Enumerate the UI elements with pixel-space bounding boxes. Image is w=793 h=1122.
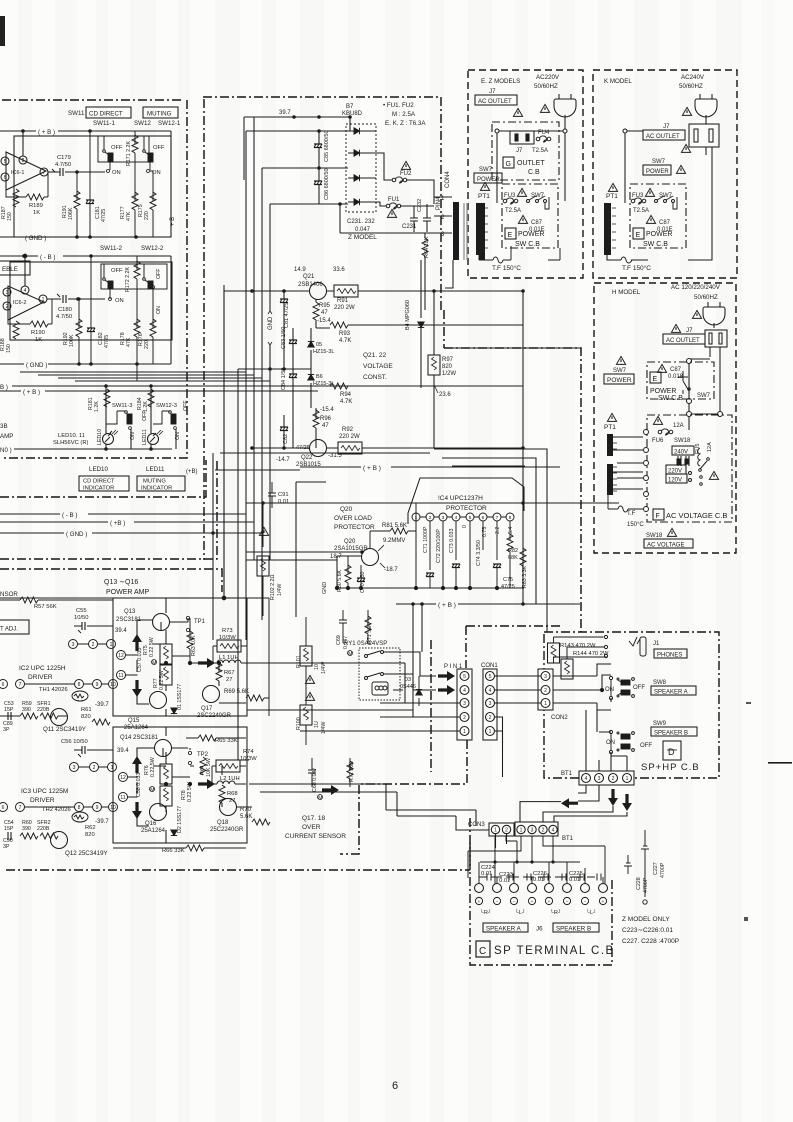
svg-text:25A1264: 25A1264: [124, 725, 149, 731]
Q12: [51, 832, 68, 849]
svg-text:R64 10K: R64 10K: [424, 236, 430, 258]
svg-text:3: 3: [463, 701, 466, 707]
B4 MPG060 diode: [405, 260, 424, 388]
zener B6 HZ15-3L: [308, 372, 335, 408]
svg-text:SW C.B: SW C.B: [658, 395, 683, 402]
C84 1/50: [281, 368, 297, 448]
R66 33K: [186, 845, 204, 851]
R176 220: [138, 287, 156, 364]
svg-text:R94: R94: [340, 392, 352, 398]
PT1 transformer EZ: [476, 203, 488, 255]
svg-text:1: 1: [626, 776, 629, 782]
CON4 transformer black bars: [453, 202, 459, 260]
svg-text:SW12: SW12: [134, 120, 151, 127]
svg-text:M: M: [152, 661, 156, 667]
svg-text:C87: C87: [670, 367, 682, 373]
R187 150: [1, 189, 19, 221]
Q17: [203, 686, 220, 703]
fuse FU4 EZ: [532, 130, 551, 154]
PT1 warn K: [608, 183, 617, 191]
svg-text:POWER: POWER: [646, 231, 672, 238]
svg-text:M : 2.5A: M : 2.5A: [392, 111, 416, 118]
svg-text:2: 2: [542, 828, 545, 834]
C53 R59 SFR1 row: [4, 701, 51, 713]
C54 R60 SFR2: [4, 820, 51, 832]
bridge rectifier B7 KBU8D: [342, 104, 376, 212]
svg-text:-18.7: -18.7: [384, 567, 398, 573]
svg-text:3P: 3P: [3, 844, 10, 850]
svg-text:OFF: OFF: [183, 400, 189, 411]
svg-text:• FU1. FU2: • FU1. FU2: [383, 102, 414, 109]
svg-text:E: E: [653, 376, 658, 383]
svg-text:TP1: TP1: [194, 619, 206, 625]
R192 100K column: [63, 297, 82, 364]
svg-text:D: D: [668, 747, 675, 757]
svg-text:GND: GND: [322, 582, 328, 594]
PT1 connection circles H: [608, 430, 649, 513]
svg-text:0.01: 0.01: [533, 877, 544, 883]
lower +B wire: [396, 602, 580, 609]
svg-text:68K: 68K: [508, 555, 518, 561]
svg-text:1: 1: [494, 828, 497, 834]
svg-text:47: 47: [321, 310, 328, 316]
svg-text:0.047: 0.047: [355, 227, 371, 233]
R94 4.7K: [311, 383, 523, 405]
LED wires: [106, 386, 176, 449]
Q16: [150, 804, 167, 821]
C68 0.047: [308, 758, 323, 802]
C83 1/50: [281, 327, 297, 369]
svg-text:SW11-3: SW11-3: [112, 403, 133, 409]
SPEAKER A / B boxes: [483, 923, 599, 933]
PT1 warn EZ: [480, 182, 489, 190]
C91 0.01: [268, 482, 289, 508]
svg-text:C55: C55: [76, 608, 87, 614]
svg-text:4: 4: [489, 688, 492, 694]
svg-text:2: 2: [489, 715, 492, 721]
svg-text:( GND ): ( GND ): [25, 235, 46, 242]
fat arrows IC2: [132, 634, 142, 651]
FU1 fuse: [376, 197, 434, 217]
svg-text:SW7: SW7: [697, 393, 711, 399]
svg-text:2: 2: [612, 776, 615, 782]
svg-text:C: C: [479, 946, 486, 957]
svg-text:2: 2: [429, 515, 432, 521]
svg-text:7: 7: [496, 515, 499, 521]
CON2: [538, 669, 553, 710]
svg-text:PT1: PT1: [478, 193, 490, 200]
svg-text:( + B ): ( + B ): [38, 129, 55, 136]
svg-text:AC220V: AC220V: [536, 74, 560, 81]
svg-text:SW11-1: SW11-1: [93, 120, 115, 127]
SP TERMINAL block border: [470, 843, 612, 965]
svg-text:GND: GND: [268, 316, 274, 330]
C70 1/50: [357, 565, 366, 593]
svg-text:820: 820: [442, 364, 453, 370]
svg-text:C223∼C226:0.01: C223∼C226:0.01: [622, 927, 673, 934]
svg-text:C84 1/50: C84 1/50: [281, 368, 287, 390]
LED11: [142, 427, 181, 445]
svg-text:Q14 2SC3181: Q14 2SC3181: [120, 735, 159, 741]
svg-text:-15.4: -15.4: [317, 318, 331, 324]
zener B5 HZ15-3L: [308, 328, 335, 372]
svg-text:F: F: [656, 513, 660, 520]
R172 2.2K: [125, 256, 140, 327]
svg-text:-31.5: -31.5: [328, 453, 342, 459]
R191 106K column: [62, 172, 80, 237]
svg-text:Q15: Q15: [128, 718, 140, 724]
svg-text:1: 1: [544, 701, 547, 707]
svg-text:+: +: [548, 899, 551, 904]
svg-text:B7: B7: [346, 104, 354, 110]
svg-text:SW12-2: SW12-2: [141, 245, 164, 252]
C181 47/25: [86, 131, 107, 237]
svg-text:(+B): (+B): [186, 469, 198, 475]
svg-text:FU1: FU1: [388, 197, 400, 203]
svg-text:150: 150: [7, 212, 13, 221]
svg-text:C231: C231: [402, 224, 417, 230]
svg-text:47/25: 47/25: [101, 209, 107, 222]
svg-text:Q12 25C3419Y: Q12 25C3419Y: [65, 850, 108, 857]
svg-text:C227. C228 :4700P: C227. C228 :4700P: [622, 938, 679, 945]
svg-text:CON4: CON4: [445, 171, 451, 188]
svg-text:R97: R97: [442, 357, 454, 363]
svg-text:11: 11: [120, 795, 125, 801]
svg-text:E: E: [636, 232, 641, 239]
op-amp IC6-2: [3, 254, 55, 320]
svg-text:C87: C87: [531, 220, 543, 226]
svg-text:2: 2: [505, 828, 508, 834]
svg-text:R143 470 2W: R143 470 2W: [560, 643, 596, 649]
junction dots top: [292, 115, 352, 206]
svg-text:NSOR: NSOR: [0, 591, 18, 598]
svg-text:C231. 232: C231. 232: [347, 219, 375, 225]
CD DIRECT box: [86, 107, 131, 118]
fat arrows IC3: [132, 756, 142, 773]
svg-text:KBU8D: KBU8D: [342, 111, 363, 117]
svg-text:C81 47/25: C81 47/25: [284, 303, 290, 328]
E POWER SW C.B label EZ: [505, 228, 544, 248]
R64 10K: [422, 233, 430, 310]
svg-text:1/4W: 1/4W: [321, 722, 327, 734]
svg-text:M: M: [348, 652, 352, 658]
svg-text:( - B ): ( - B ): [40, 254, 55, 261]
svg-text:IC2 UPC 1225H: IC2 UPC 1225H: [19, 665, 66, 672]
svg-text:R189: R189: [29, 203, 43, 209]
R171 2.2K: [126, 131, 138, 200]
svg-text:SW7: SW7: [479, 167, 493, 173]
AC VOLTAGE C.B box H: [647, 415, 732, 522]
svg-text:LED10: LED10: [97, 429, 103, 445]
svg-text:R66 33K: R66 33K: [162, 848, 185, 854]
R / L brackets: [480, 909, 597, 916]
SW7 POWER label K: [643, 159, 686, 175]
switch inside H power box: [678, 371, 711, 399]
svg-text:ON: ON: [112, 170, 121, 176]
svg-text:47/25: 47/25: [104, 335, 110, 348]
svg-text:OFF: OFF: [633, 685, 645, 691]
svg-text:ON: ON: [115, 298, 124, 304]
bottom border of amp block: [6, 869, 470, 871]
IC4 pins 1-8: [412, 513, 514, 521]
svg-text:J7: J7: [516, 148, 523, 154]
svg-text:B6: B6: [316, 374, 323, 380]
svg-text:SPEAKER B: SPEAKER B: [654, 731, 688, 737]
center power-supply block top: [203, 96, 441, 98]
svg-text:47/25: 47/25: [501, 584, 515, 590]
AC OUTLET label K: [643, 130, 685, 140]
R96 47: [313, 408, 332, 448]
svg-text:R70: R70: [240, 807, 252, 813]
svg-text:3: 3: [598, 776, 601, 782]
svg-text:AC OUTLET: AC OUTLET: [478, 99, 512, 105]
R64 10K 5W: [200, 757, 206, 775]
svg-text:R82: R82: [508, 548, 518, 554]
center block left border: [203, 99, 205, 560]
svg-text:SW11-2: SW11-2: [100, 245, 122, 252]
svg-text:SW7: SW7: [652, 159, 666, 165]
svg-text:Q13: Q13: [124, 609, 136, 615]
svg-text:05: 05: [316, 342, 322, 348]
svg-text:OFF: OFF: [111, 268, 123, 274]
IC4 pin value labels: [423, 525, 514, 566]
ON circles row2: [109, 298, 112, 301]
svg-text:3: 3: [489, 701, 492, 707]
svg-text:33.6: 33.6: [333, 267, 345, 273]
arrows below BT1: [608, 789, 618, 806]
wire row y204: [270, 203, 348, 205]
R83 3.3K: [520, 467, 528, 604]
svg-text:Q18: Q18: [217, 820, 229, 826]
wires K: [607, 129, 712, 263]
svg-text:OFF: OFF: [111, 145, 123, 151]
svg-text:T.F 150°C: T.F 150°C: [622, 264, 651, 272]
svg-text:Q21: Q21: [303, 274, 315, 280]
switch SW12-2: [143, 264, 162, 289]
svg-text:C85 6800/50: C85 6800/50: [324, 131, 330, 163]
capacitor C86 6800/50: [314, 168, 330, 204]
svg-text:R96: R96: [320, 416, 332, 422]
svg-text:0: 0: [462, 525, 468, 528]
svg-text:−: −: [513, 899, 516, 904]
svg-text:PHONES: PHONES: [657, 653, 682, 659]
wires into CON3 from left: [386, 810, 507, 848]
svg-text:R144 470 2W: R144 470 2W: [573, 651, 609, 657]
svg-text:LED11: LED11: [142, 429, 148, 445]
svg-text:AC240V: AC240V: [681, 74, 705, 81]
svg-text:8: 8: [509, 515, 512, 521]
svg-text:OVER LOAD: OVER LOAD: [334, 515, 372, 522]
switch SW11-2: [103, 264, 123, 299]
svg-text:( + B ): ( + B ): [23, 389, 40, 396]
svg-text:1: 1: [42, 297, 45, 303]
svg-text:J6: J6: [536, 926, 543, 933]
L2 + R: [216, 760, 240, 772]
IC4 pin wires down: [416, 521, 510, 588]
svg-text:R65 33K: R65 33K: [215, 738, 238, 744]
left tone block top border: [2, 99, 184, 101]
svg-text:J7: J7: [489, 88, 496, 95]
svg-text:0.22 5W: 0.22 5W: [149, 637, 155, 657]
svg-text:FU2: FU2: [400, 171, 412, 177]
row1 wire to ON: [77, 171, 105, 173]
svg-text:10: 10: [314, 664, 320, 670]
amp stage rect IC2: [113, 598, 247, 716]
phones jack J1: [554, 635, 647, 663]
D3 0S446 diode: [400, 676, 422, 706]
svg-text:CURRENT SENSOR: CURRENT SENSOR: [285, 833, 346, 840]
R190 1K: [8, 299, 52, 343]
svg-text:240V: 240V: [674, 450, 688, 456]
svg-text:INDICATOR: INDICATOR: [141, 486, 172, 492]
svg-text:6: 6: [482, 515, 485, 521]
border to SP+HP area: [444, 348, 581, 632]
svg-text:50/60HZ: 50/60HZ: [534, 83, 558, 90]
svg-text:PT1: PT1: [604, 424, 616, 431]
C81 47/25: [268, 289, 290, 371]
svg-text:OFF: OFF: [142, 410, 148, 421]
outlet symbol K: [689, 120, 719, 155]
svg-text:220B: 220B: [37, 707, 50, 713]
svg-text:8: 8: [78, 805, 81, 811]
svg-text:R69 5.6K: R69 5.6K: [224, 689, 249, 695]
center block right border: [440, 97, 442, 310]
svg-text:10/50: 10/50: [74, 615, 89, 621]
svg-text:39.7: 39.7: [279, 110, 291, 116]
svg-text:R92: R92: [342, 427, 354, 433]
Q20 wires: [296, 482, 396, 617]
R91 220 2W: [334, 285, 525, 311]
svg-text:AMP: AMP: [0, 433, 13, 440]
Q20 transistor: [330, 538, 405, 573]
svg-text:R190: R190: [31, 330, 45, 336]
R67 27: [216, 663, 222, 681]
svg-text:C69: C69: [336, 635, 342, 645]
C boxed + SP TERMINAL C.B: [476, 941, 615, 957]
svg-text:BT1: BT1: [561, 771, 573, 777]
svg-text:R171 2.2K: R171 2.2K: [126, 141, 132, 166]
svg-text:J7: J7: [663, 123, 670, 130]
svg-text:C56 10/50: C56 10/50: [61, 739, 88, 745]
svg-text:1K: 1K: [33, 210, 40, 216]
R188 150: [0, 321, 19, 353]
svg-text:R91: R91: [337, 298, 349, 304]
svg-text:10: 10: [110, 805, 116, 811]
svg-text:M: M: [318, 796, 322, 802]
svg-text:T2.5A: T2.5A: [633, 208, 649, 214]
svg-text:3: 3: [72, 642, 75, 648]
svg-text:MUTING: MUTING: [147, 111, 172, 118]
svg-text:C87: C87: [659, 220, 671, 226]
svg-text:2: 2: [544, 688, 547, 694]
op-amp IC6-1: [1, 152, 57, 190]
R71 56K: [365, 610, 373, 644]
svg-text:2: 2: [463, 715, 466, 721]
svg-text:820: 820: [85, 832, 95, 838]
svg-text:E. K. Z : T6.3A: E. K. Z : T6.3A: [385, 120, 426, 127]
vertical wire x213: [212, 453, 214, 640]
svg-text:01 1SS177: 01 1SS177: [177, 684, 183, 710]
svg-text:39.4: 39.4: [115, 628, 127, 634]
svg-text:Z MODEL: Z MODEL: [348, 234, 377, 241]
svg-text:3: 3: [531, 828, 534, 834]
svg-text:9.2MMV: 9.2MMV: [383, 538, 405, 544]
svg-text:C179: C179: [57, 155, 71, 161]
svg-text:1: 1: [463, 729, 466, 735]
wires BT1 to lower BT1: [520, 785, 627, 824]
svg-text:CON3: CON3: [468, 822, 485, 828]
wire row y131: [246, 130, 348, 132]
R92 220 2W: [326, 427, 525, 454]
SW7 switch K: [655, 196, 678, 209]
FU2 fuse: [376, 153, 434, 204]
svg-text:T ADJ.: T ADJ.: [0, 627, 18, 633]
svg-text:3P: 3P: [3, 727, 10, 733]
svg-text:OFF: OFF: [640, 743, 652, 749]
svg-text:23.6: 23.6: [439, 392, 451, 398]
R72 56K: [347, 758, 355, 787]
svg-text:47K: 47K: [126, 211, 132, 221]
svg-text:10: 10: [110, 682, 116, 688]
svg-text:11: 11: [118, 673, 123, 679]
svg-text:R100: R100: [296, 717, 302, 730]
svg-text:C.B: C.B: [528, 169, 540, 176]
svg-text:T2.5A: T2.5A: [505, 208, 521, 214]
svg-text:CD DIRECT: CD DIRECT: [89, 111, 123, 118]
wires H outlet down: [687, 347, 723, 430]
R181 1.2K: [88, 389, 110, 412]
svg-text:1/4W: 1/4W: [277, 584, 283, 596]
indicator block borders: [0, 460, 206, 497]
svg-text:R63 10K: R63 10K: [191, 635, 197, 656]
svg-text:LED10: LED10: [89, 466, 108, 473]
svg-text:CD DIRECT: CD DIRECT: [83, 479, 115, 485]
svg-text:SW11: SW11: [68, 110, 85, 117]
SW7 POWER label EZ: [474, 167, 502, 183]
svg-text:6: 6: [2, 805, 5, 811]
svg-text:47K: 47K: [126, 337, 132, 347]
IC3 pins: [0, 763, 128, 812]
caps on IC4 pins: [426, 573, 434, 577]
row1 enclosure: [14, 136, 171, 237]
svg-text:SW18: SW18: [646, 533, 663, 539]
IC2 pins 3 2 1: [0, 640, 126, 689]
wrap wires below block A: [20, 372, 270, 381]
svg-text:Q17. 18: Q17. 18: [302, 815, 326, 822]
switch SW11-1: [103, 136, 123, 170]
R95 47: [313, 299, 331, 328]
plug H: [703, 302, 725, 328]
T ADJ box: [0, 620, 29, 634]
svg-text:220 2W: 220 2W: [339, 434, 360, 440]
svg-text:R73: R73: [222, 628, 233, 634]
svg-text:Q21. 22: Q21. 22: [363, 352, 387, 359]
svg-text:└R┘: └R┘: [480, 909, 492, 916]
SW8 switch group: [609, 676, 634, 699]
POWER SW C.B box K: [630, 184, 686, 248]
svg-text:R74: R74: [243, 749, 254, 755]
svg-text:DRIVER: DRIVER: [28, 674, 53, 681]
svg-text:ON: ON: [606, 740, 615, 746]
SW7 switch EZ: [527, 196, 550, 209]
svg-text:HZ15-3L: HZ15-3L: [313, 349, 334, 355]
relay coil: [372, 682, 388, 695]
svg-text:R95: R95: [319, 303, 331, 309]
PT1 warn H: [607, 413, 616, 421]
svg-text:( GND ): ( GND ): [26, 362, 47, 369]
C82 47/25: [280, 415, 310, 451]
svg-text:47: 47: [322, 423, 329, 429]
